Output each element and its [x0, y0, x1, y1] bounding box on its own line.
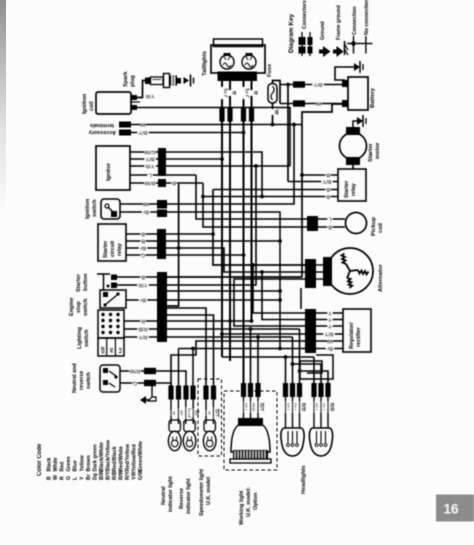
svg-text:Green/White: Green/White	[138, 441, 144, 472]
svg-text:B: B	[141, 238, 145, 244]
wire stop Br	[126, 299, 157, 301]
svg-text:Battery: Battery	[370, 87, 376, 108]
svg-text:Engine: Engine	[69, 297, 75, 316]
page number tab	[436, 495, 474, 522]
junction relay B3 a	[201, 195, 205, 199]
wire button Y/R	[117, 284, 157, 286]
svg-text:R/W: R/W	[129, 368, 140, 374]
svg-text:B/Y: B/Y	[145, 156, 154, 162]
key label connection	[352, 6, 358, 35]
svg-text:Brown: Brown	[86, 455, 92, 471]
wire regulator Y1 to alternator	[253, 265, 305, 313]
alternator windings	[342, 254, 369, 288]
wire bulb leads	[171, 399, 214, 400]
label neutral reverse switch	[72, 363, 92, 393]
regulator box	[343, 309, 371, 352]
label spark plug	[123, 71, 136, 87]
wire fuse bottom	[272, 103, 274, 125]
svg-text:B: B	[326, 193, 330, 199]
wire Y/R to starter button	[167, 166, 256, 285]
svg-text:R/B: R/B	[300, 403, 306, 412]
wire G neutral	[120, 383, 171, 386]
junction ignitor B/Y	[220, 157, 224, 161]
battery terminal 2	[342, 100, 348, 107]
svg-text:Spark: Spark	[123, 71, 129, 87]
junction hl B/Y 1	[284, 355, 288, 359]
label reg Y1	[328, 310, 333, 317]
lighting switch box	[98, 310, 124, 338]
ground at battery	[354, 61, 363, 73]
wire stop Br out	[166, 299, 280, 301]
svg-text:Br: Br	[326, 345, 333, 351]
headlight bulb 1	[281, 428, 304, 456]
label button Y/R	[138, 282, 149, 289]
svg-text:Blue: Blue	[73, 460, 79, 471]
starter button symbol	[97, 274, 117, 290]
regulator connector bar	[305, 309, 316, 353]
junction relay B3 b	[260, 195, 264, 199]
svg-text:G: G	[66, 476, 72, 480]
wire R out	[167, 320, 252, 322]
wire alt to reg link	[300, 288, 302, 309]
wire headlight R/B 2	[300, 371, 329, 384]
label pickup L	[328, 216, 333, 223]
wire scr G	[126, 254, 157, 256]
ground wire neutral	[151, 383, 153, 397]
label wire W batt	[316, 100, 322, 107]
wire starter motor to relay	[352, 165, 354, 169]
connector R/W	[144, 368, 156, 374]
svg-text:Taillights: Taillights	[202, 51, 208, 76]
battery ground wire	[335, 67, 354, 80]
ignitor connector bar	[158, 148, 166, 187]
working light lamp	[230, 418, 271, 463]
label hl2 R/Y	[318, 402, 328, 413]
wire working R/B drop	[250, 329, 252, 384]
engine stop switch box	[100, 290, 126, 308]
label starter button	[76, 273, 89, 292]
junction Br 1	[191, 347, 195, 351]
svg-text:Y: Y	[328, 310, 332, 316]
svg-text:Working light: Working light	[239, 490, 245, 525]
wire regulator W line	[171, 341, 305, 386]
svg-text:R: R	[230, 91, 236, 95]
ignitor box	[96, 146, 130, 190]
label pickup coil	[371, 217, 384, 236]
label ignitor B/W	[144, 180, 156, 187]
taillight housing	[211, 39, 265, 73]
svg-text:Red/Black: Red/Black	[112, 446, 118, 471]
svg-text:rectifier: rectifier	[356, 326, 362, 347]
wire taillight B/Y 2	[243, 81, 245, 384]
wire hl1 leads	[286, 396, 300, 428]
label wl R/B	[247, 402, 257, 413]
label ignitor G/W	[144, 149, 156, 156]
spark plug P1	[145, 74, 181, 88]
connector bulb Br1	[176, 386, 181, 400]
svg-text:Red/Yellow: Red/Yellow	[125, 443, 131, 471]
wire button B	[117, 276, 157, 278]
wire light R/B	[124, 328, 157, 330]
accessory terminal connector B/Y	[119, 130, 131, 136]
label hl1 R/Y	[289, 402, 299, 413]
junction Br 2	[278, 347, 282, 351]
wire R/B headlight 1 drop	[299, 329, 301, 384]
wire stop out 2	[167, 290, 280, 292]
connector bulb B/Y	[211, 386, 216, 400]
starter motor body	[340, 127, 367, 165]
connector tl 1	[219, 108, 224, 122]
svg-text:reverse: reverse	[79, 371, 85, 390]
connector wl R/Y	[255, 383, 260, 397]
svg-text:No connection: No connection	[364, 0, 370, 35]
label wire B/Y acc	[138, 129, 149, 136]
svg-text:B: B	[172, 180, 176, 186]
connector wl B/Y	[241, 383, 246, 397]
wire bus riser	[167, 184, 179, 306]
label hl1 B/Y	[282, 402, 292, 413]
wire pickup L	[318, 218, 345, 220]
svg-text:switch: switch	[84, 329, 90, 347]
label ignitor L	[148, 172, 153, 179]
speedometer dashed box	[198, 379, 222, 456]
wire pickup B	[318, 226, 345, 228]
junction hl R/Y	[291, 362, 295, 366]
wire reg Y1	[316, 312, 343, 314]
svg-text:B/Y: B/Y	[214, 409, 220, 418]
svg-text:Black/Yellow: Black/Yellow	[105, 439, 111, 471]
key label connectors	[302, 0, 308, 29]
wire regulator B/Y line	[222, 333, 305, 335]
wire scr Br	[126, 247, 157, 249]
wire reg B/Y	[316, 333, 343, 335]
junction scr G	[242, 253, 246, 257]
wire R/B out	[167, 328, 300, 330]
wire alternator phase 2	[166, 248, 305, 272]
key connector symbol 2	[308, 32, 313, 56]
svg-text:R: R	[252, 91, 258, 95]
svg-text:Yellow: Yellow	[79, 454, 85, 471]
svg-text:Alternator: Alternator	[378, 264, 384, 292]
wire relay B/Y	[288, 181, 338, 183]
svg-text:circuit: circuit	[110, 241, 116, 257]
wire hl2 leads	[314, 396, 328, 428]
wire reg Y3	[316, 325, 343, 327]
pickup connector bar	[307, 216, 318, 231]
alternator body	[323, 248, 373, 294]
svg-text:Y: Y	[328, 316, 332, 322]
connector batt W	[293, 100, 305, 106]
junction B/Y branch	[286, 83, 290, 87]
label fuse	[267, 64, 273, 77]
connector hl1 R/Y	[290, 383, 295, 397]
junction B/Y acc	[242, 131, 246, 135]
label tl R 2	[248, 90, 258, 95]
svg-text:Lighting: Lighting	[77, 326, 83, 349]
label accessory terminals	[89, 122, 116, 135]
junction W fuse	[271, 123, 275, 127]
wire Br bulb 2	[192, 349, 194, 387]
wire B to ignitor	[203, 183, 307, 227]
svg-text:Starter: Starter	[76, 273, 82, 292]
svg-text:B/Y: B/Y	[138, 129, 147, 135]
label neutral indicator light	[161, 476, 174, 512]
label bulb B/Y	[210, 408, 220, 419]
label ignitor B/Y	[145, 156, 156, 163]
svg-text:Connectors: Connectors	[302, 0, 308, 29]
label G neutral	[133, 380, 138, 387]
svg-text:U.K. model: U.K. model	[206, 476, 212, 505]
wire scr G out	[166, 254, 244, 256]
wire battery to starter relay	[302, 104, 345, 277]
junction stop Br	[278, 298, 282, 302]
svg-text:G: G	[141, 252, 145, 258]
label scr B2	[141, 238, 146, 245]
key no connection symbol	[360, 36, 373, 54]
starter circuit relay box	[98, 224, 126, 261]
ignition switch key symbol	[105, 204, 117, 217]
svg-text:relay: relay	[117, 243, 123, 256]
label speedometer light	[199, 469, 212, 516]
svg-text:Green: Green	[66, 457, 72, 472]
battery terminal 1	[342, 80, 348, 87]
scan shadow left edge	[0, 0, 6, 215]
label relay B/Y	[322, 178, 333, 185]
wire button B out	[167, 276, 302, 278]
svg-text:Y/R: Y/R	[138, 282, 147, 288]
lighting switch positions box	[98, 338, 124, 356]
svg-text:R/B: R/B	[328, 403, 334, 412]
wire headlight B/Y 1 drop	[285, 357, 287, 384]
svg-text:relay: relay	[351, 183, 357, 196]
junction scr B1	[211, 232, 215, 236]
label wire B/Y batt	[313, 81, 324, 88]
svg-text:B: B	[141, 231, 145, 237]
label wire W fuse	[269, 109, 279, 115]
wire ign sw W	[120, 125, 294, 205]
svg-text:B: B	[47, 476, 53, 480]
wire W battery	[280, 103, 342, 105]
wire B/Y accessory	[131, 132, 244, 134]
wire reg W	[316, 340, 343, 342]
connector bulb Br2	[190, 386, 195, 400]
label light R/B	[138, 326, 149, 333]
connector G	[144, 380, 156, 386]
ignition coil box	[96, 92, 131, 114]
junction Y/R starter	[254, 164, 258, 168]
junction reg Y1	[251, 263, 255, 267]
svg-text:Neutral: Neutral	[161, 486, 167, 505]
svg-text:B/Y: B/Y	[322, 178, 331, 184]
wire W accessory	[131, 124, 302, 126]
label wire W acc	[140, 121, 146, 128]
connector bulb G	[168, 386, 173, 400]
label reg Y3	[328, 323, 333, 330]
svg-text:U.K. model:: U.K. model:	[246, 487, 252, 517]
alternator stub wires	[316, 265, 323, 279]
svg-text:Br: Br	[139, 245, 146, 251]
junction W acc	[292, 123, 296, 127]
svg-text:Lo: Lo	[118, 347, 123, 353]
label hl1 R/B	[296, 402, 306, 413]
wire ignitor G/W	[130, 152, 262, 197]
label light R/Y	[138, 334, 149, 341]
label tl B/Y 1	[219, 87, 229, 98]
wire working R/Y drop	[257, 337, 259, 384]
label wl B/Y	[240, 402, 250, 413]
connector wl R/B	[248, 383, 253, 397]
wire light R	[124, 320, 157, 322]
svg-text:R: R	[141, 318, 145, 324]
ignition switch box	[101, 199, 120, 219]
wire taillight R 1	[229, 81, 231, 361]
svg-text:G: G	[133, 380, 137, 386]
svg-text:G/W: G/W	[144, 149, 156, 155]
label ignitor B stub	[172, 180, 177, 187]
svg-text:indicator light: indicator light	[186, 478, 192, 514]
svg-text:16: 16	[443, 502, 459, 517]
connector hl1 R/B	[297, 383, 302, 397]
label scr B1	[141, 231, 146, 238]
svg-text:Option: Option	[253, 493, 259, 510]
svg-text:B: B	[326, 186, 330, 192]
svg-text:Accessory: Accessory	[89, 129, 116, 135]
ignition coil terminals	[131, 95, 140, 110]
svg-text:B: B	[141, 274, 145, 280]
color code table	[37, 439, 144, 480]
junction R/B w	[249, 327, 253, 331]
ground at neutral switch	[140, 396, 156, 404]
label reg W	[327, 338, 333, 345]
diagram key title	[288, 13, 295, 53]
label bulb R	[203, 411, 213, 416]
svg-text:switch: switch	[86, 372, 92, 389]
wire ign sw Br	[120, 212, 280, 349]
alternator connector bar	[305, 259, 316, 288]
svg-text:stop: stop	[76, 301, 82, 313]
svg-text:switch: switch	[92, 199, 98, 217]
label light R	[141, 318, 146, 325]
svg-text:Ignition: Ignition	[85, 198, 91, 219]
wire relay B 2	[213, 189, 338, 191]
svg-text:Ignitor: Ignitor	[106, 162, 112, 181]
junction hl R/B	[298, 369, 302, 373]
wire reg Y2	[316, 319, 343, 321]
label stop Br	[139, 297, 147, 304]
svg-text:plug: plug	[130, 75, 136, 87]
svg-text:Neutral and: Neutral and	[72, 363, 78, 393]
svg-text:button: button	[83, 273, 89, 291]
wire Br collector	[179, 348, 306, 350]
label tl B/Y 2	[240, 87, 250, 98]
svg-text:W: W	[53, 475, 59, 480]
label scr G	[141, 252, 146, 259]
key connection symbol	[347, 36, 360, 54]
junction stop 2	[278, 289, 282, 293]
wire R bulb	[167, 308, 206, 386]
key label ground	[320, 21, 326, 40]
svg-text:B/W: B/W	[144, 180, 155, 186]
connector tl 2	[227, 108, 232, 122]
label wl R/Y	[255, 402, 265, 413]
label bulb Br1	[175, 409, 185, 417]
wire headlight R/Y 2	[293, 364, 322, 384]
svg-text:Y/R: Y/R	[145, 93, 154, 99]
svg-text:Starter: Starter	[103, 240, 109, 258]
label hl2 B/Y	[311, 402, 321, 413]
label bulb G	[168, 411, 178, 416]
svg-text:switch: switch	[83, 298, 89, 316]
svg-text:Br: Br	[86, 474, 92, 480]
handlebar bus bar	[157, 272, 167, 342]
svg-text:Frame ground: Frame ground	[336, 5, 342, 40]
svg-text:Black: Black	[47, 458, 53, 472]
svg-text:White: White	[53, 457, 59, 471]
wire reg Br	[316, 348, 343, 350]
label relay B3	[326, 193, 331, 200]
svg-text:Red: Red	[60, 462, 66, 472]
ground at spark plug	[184, 75, 194, 87]
label engine stop switch	[69, 297, 89, 316]
junction R tl2	[250, 319, 254, 323]
label R/W neutral	[129, 368, 141, 375]
svg-text:Red/White: Red/White	[119, 446, 125, 471]
speedometer bulb	[203, 400, 216, 451]
wire ignitor B/W	[130, 182, 203, 184]
connector hl2 R/Y	[318, 383, 323, 397]
wire scr B1 out	[166, 233, 213, 235]
label headlights	[301, 465, 307, 494]
connector hl2 B/Y	[311, 383, 316, 397]
junction scr B2	[278, 239, 282, 243]
wire relay B 3	[203, 196, 338, 198]
svg-text:Dark green: Dark green	[92, 444, 98, 471]
wire light R/Y	[124, 336, 157, 338]
label ign sw Br	[142, 209, 150, 216]
label reg Br	[326, 345, 334, 352]
label bulb Br2	[190, 409, 200, 417]
wire ignitor B/Y	[130, 158, 222, 160]
label starter motor	[368, 142, 381, 162]
svg-text:coil: coil	[89, 101, 95, 111]
label button B	[141, 274, 146, 281]
connector bulb R	[203, 386, 208, 400]
svg-text:coil: coil	[378, 223, 384, 233]
svg-text:terminals: terminals	[90, 122, 114, 128]
svg-text:Y: Y	[79, 476, 85, 480]
label wire Y/R	[145, 93, 156, 100]
label scr Br	[139, 245, 147, 252]
label ign sw W	[143, 201, 149, 208]
svg-text:Off: Off	[101, 346, 106, 353]
svg-text:Starter: Starter	[344, 180, 350, 198]
label reg B/Y	[324, 331, 335, 338]
svg-text:Pickup: Pickup	[371, 217, 377, 236]
headlight bulb 2	[309, 428, 332, 456]
svg-text:Headlights: Headlights	[301, 465, 307, 494]
connector bulb R/W	[183, 386, 188, 400]
label relay B2	[326, 186, 331, 193]
wire taillight B/Y 1	[221, 81, 223, 357]
svg-text:Br: Br	[139, 297, 146, 303]
wire scr B2 out	[166, 240, 280, 242]
wire scr B1	[126, 233, 157, 235]
junction bus riser	[177, 246, 181, 250]
junction R/Y w	[256, 335, 260, 339]
connector hl2 R/B	[325, 383, 330, 397]
label ignition switch	[85, 198, 98, 219]
svg-text:R/Y: R/Y	[138, 334, 147, 340]
